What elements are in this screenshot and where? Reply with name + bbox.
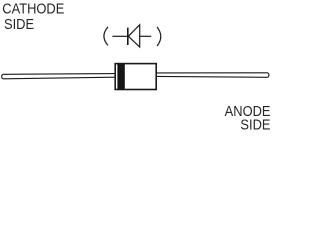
diode D1 triangle (anode, pointing left) xyxy=(128,25,139,47)
svg-text:SIDE: SIDE xyxy=(4,15,34,32)
diode D1 cathode bar xyxy=(127,28,129,45)
lead: cathode lead wire (left, axial) xyxy=(2,74,115,79)
label: CATHODE SIDE (top-left) xyxy=(2,0,64,32)
diode D1 package body xyxy=(115,64,156,90)
label: ANODE SIDE (bottom-right) xyxy=(225,102,271,132)
svg-text:SIDE: SIDE xyxy=(240,115,270,132)
parenthesis left xyxy=(104,27,108,46)
parenthesis right xyxy=(157,27,161,46)
wire: symbol anode lead (right) xyxy=(140,35,152,37)
wire: symbol cathode lead (left) xyxy=(112,35,127,37)
diode D1 cathode band xyxy=(117,64,124,90)
lead: anode lead wire (right, axial) xyxy=(157,73,269,78)
